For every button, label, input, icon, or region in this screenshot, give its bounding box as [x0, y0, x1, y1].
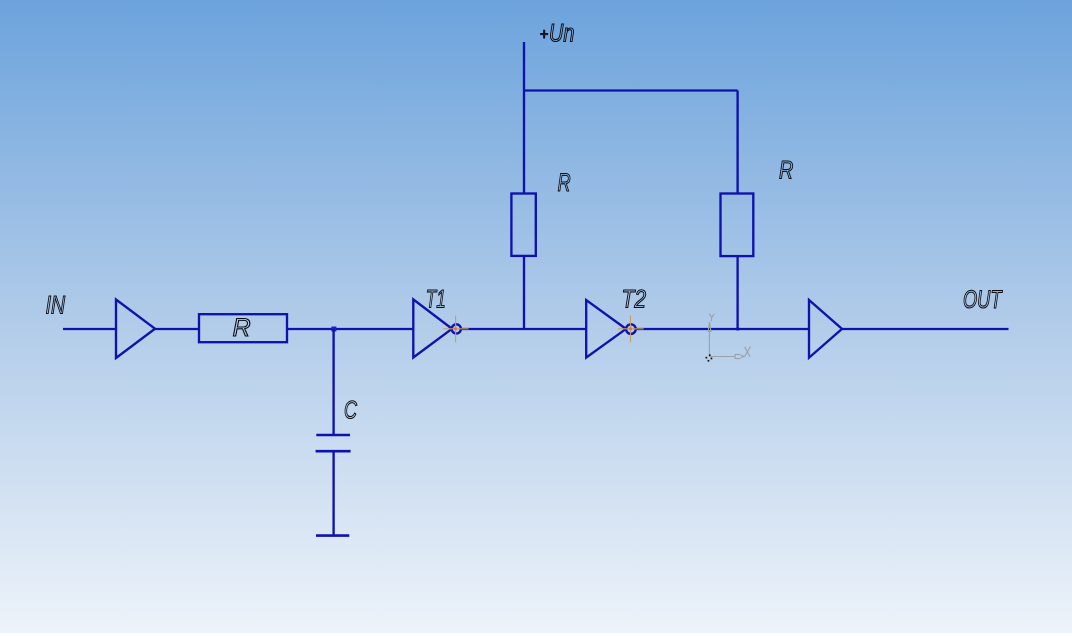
coordinate origin marker (X/Y axes) — [706, 314, 751, 362]
wire A1 output to R1 — [155, 328, 199, 330]
ground bar — [316, 534, 349, 537]
svg-text:Un: Un — [549, 20, 574, 48]
svg-text:T2: T2 — [622, 286, 647, 314]
capacitor C1 bottom plate — [316, 450, 351, 453]
resistor R2 — [511, 194, 535, 256]
wire R1 to T1 input — [287, 328, 413, 330]
X axis label glyph — [744, 347, 750, 358]
inverter T1 output bubble — [452, 324, 461, 333]
svg-text:C: C — [344, 397, 358, 425]
capacitor C1 top plate — [316, 434, 350, 437]
inverter T1 — [413, 299, 452, 357]
wire T1 output to T2 input — [461, 328, 586, 330]
origin snap dots — [709, 354, 711, 356]
selection crosshair on T2 output — [618, 315, 644, 342]
wire R3 bottom to node C — [736, 257, 738, 330]
svg-text:+: + — [540, 26, 548, 43]
wire IN lead — [63, 328, 116, 330]
svg-text:T1: T1 — [426, 286, 446, 314]
X axis line — [709, 356, 735, 358]
wire node A down to C1 — [332, 329, 334, 436]
svg-text:IN: IN — [46, 292, 66, 320]
inverter T2 — [586, 300, 626, 358]
inverter T2 output bubble — [626, 324, 636, 334]
buffer A2 — [809, 300, 842, 358]
wire +Un vertical drop — [523, 42, 525, 193]
selection crosshair on T1 output — [443, 316, 468, 343]
junction node C — [736, 328, 739, 331]
junction node A — [331, 327, 336, 332]
svg-text:OUT: OUT — [963, 286, 1003, 314]
wire T2 output to buffer A2 — [636, 328, 809, 330]
svg-text:R: R — [233, 314, 251, 342]
X axis arrowhead — [735, 354, 744, 358]
Y axis line — [708, 332, 710, 357]
wire +Un horizontal rail — [524, 89, 738, 91]
Y axis label glyph — [709, 314, 714, 322]
wire C1 to bottom bar — [332, 451, 334, 535]
svg-text:R: R — [779, 157, 793, 185]
Y axis arrowhead — [708, 322, 711, 332]
wire A2 output to OUT — [842, 328, 1009, 330]
resistor R1 — [199, 314, 287, 342]
buffer A1 — [116, 300, 155, 359]
svg-text:R: R — [558, 169, 571, 197]
resistor R3 — [721, 194, 754, 257]
wire R2 bottom to node B — [523, 257, 525, 330]
wire rail right drop — [736, 91, 738, 194]
